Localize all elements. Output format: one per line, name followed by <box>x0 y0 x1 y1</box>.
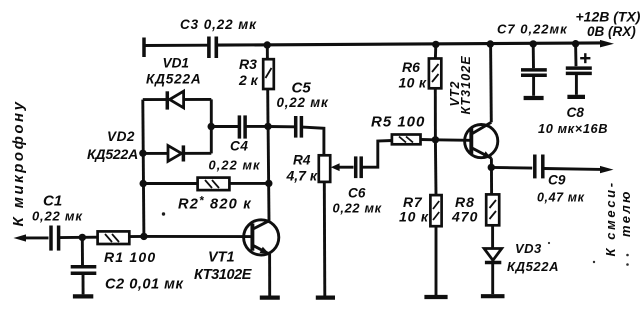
node: rail/C8 junction <box>572 40 579 47</box>
resistor R1 <box>98 231 130 244</box>
input arrow to microphone <box>14 234 27 241</box>
label R8 <box>455 194 475 210</box>
label C4 <box>230 139 248 154</box>
wire: rail to R3 <box>266 45 269 59</box>
label R3 value <box>238 72 259 88</box>
wire: R4 bottom to ground <box>323 182 326 296</box>
resistor R8 <box>486 194 499 225</box>
capacitor C2 <box>71 267 97 273</box>
svg-text:0В (RX): 0В (RX) <box>587 24 636 39</box>
svg-text:10 к: 10 к <box>399 209 429 225</box>
wire: diode pair right vertical <box>210 99 213 153</box>
capacitor C9 <box>535 155 543 179</box>
transistor VT2 <box>465 122 498 158</box>
label VT1 <box>208 250 235 266</box>
svg-text:0,22 мк: 0,22 мк <box>209 158 261 173</box>
svg-text:4,7 к: 4,7 к <box>286 168 318 184</box>
label to mixer line2 <box>618 189 633 237</box>
wire: VD2 row <box>143 152 211 155</box>
wire: C4 to collector node <box>246 125 267 128</box>
svg-text:К микрофону: К микрофону <box>10 100 27 227</box>
wire: VT2 emitter down <box>490 158 493 194</box>
label +12V TX <box>576 9 641 25</box>
svg-text:VD2: VD2 <box>107 129 135 144</box>
svg-text:2 к: 2 к <box>238 72 259 88</box>
potentiometer R4 <box>319 155 340 182</box>
svg-text:10 мк×16В: 10 мк×16В <box>538 121 608 136</box>
wire: R6 to base node <box>434 88 437 140</box>
resistor R7 <box>430 195 441 226</box>
ground (C2) <box>73 294 93 298</box>
diode VD1 <box>167 91 183 109</box>
svg-text:R6: R6 <box>402 59 420 75</box>
node: rail/R3 junction <box>264 41 271 48</box>
label C6 value <box>333 201 382 216</box>
svg-text:0,22 мк: 0,22 мк <box>32 209 83 224</box>
wire: C7 to ground <box>532 75 535 96</box>
svg-text:R2* 820 к: R2* 820 к <box>178 196 252 213</box>
wire: C2 to ground <box>82 273 85 294</box>
wire: collector vertical VT1 <box>267 126 271 220</box>
svg-text:VD1: VD1 <box>163 56 189 71</box>
label VD2 <box>107 129 135 144</box>
label VT2 type <box>459 55 473 114</box>
label R1 value <box>104 249 156 265</box>
wire: R7 to ground <box>435 226 438 295</box>
node: collector VT1 junction <box>264 123 271 130</box>
wire: R5 to base node VT2 <box>421 138 436 141</box>
svg-text:С9: С9 <box>548 173 566 188</box>
node: rail/VT2 collector junction <box>487 40 494 47</box>
node: rail/C7 junction <box>530 40 537 47</box>
polarity plus C8 <box>580 53 590 63</box>
wire: base node to R7 <box>434 140 438 195</box>
label to microphone <box>10 100 27 227</box>
wire: base node to VT1 <box>144 235 251 238</box>
node: rail/R6 junction <box>432 41 439 48</box>
svg-text:+12В (TX): +12В (TX) <box>576 9 641 25</box>
svg-text:470: 470 <box>451 209 478 225</box>
svg-text:КД522А: КД522А <box>87 146 138 162</box>
output arrow to mixer <box>600 166 614 173</box>
label C8 value <box>538 121 608 136</box>
wire: VT1 emitter to ground <box>268 254 271 296</box>
label 0V RX <box>587 24 636 39</box>
wire: C2 branch vertical <box>81 237 84 265</box>
ground (R7) <box>424 295 447 299</box>
label R7 value <box>399 209 429 225</box>
svg-text:R1 100: R1 100 <box>104 249 156 265</box>
svg-text:С4: С4 <box>230 139 248 154</box>
capacitor C1 <box>51 226 59 251</box>
wire: R3 to collector node <box>266 89 269 126</box>
stray scan specks right margin <box>548 242 629 266</box>
label C9 value <box>537 191 585 205</box>
wire: VT2 collector to rail <box>489 44 493 122</box>
resistor R2 <box>198 178 230 191</box>
svg-text:0,22 мк: 0,22 мк <box>277 95 329 110</box>
label VD2 type <box>87 146 138 162</box>
label R5 value <box>371 114 425 131</box>
label to mixer line1 <box>603 180 618 256</box>
wire: C6 up to R5 <box>362 141 392 168</box>
wire: R4 wiper to C6 <box>339 166 354 169</box>
label R8 value <box>451 209 478 225</box>
label VD3 type <box>507 259 559 274</box>
label R6 <box>402 59 420 75</box>
label C9 <box>548 173 566 188</box>
svg-text:КД522А: КД522А <box>146 72 201 87</box>
wire: VD1 row <box>143 98 212 101</box>
node: R2 right junction <box>265 180 272 187</box>
label C3 value <box>180 17 257 32</box>
node: VD2 left junction <box>139 150 146 157</box>
label C5 value <box>277 95 329 110</box>
svg-text:С5: С5 <box>292 80 312 97</box>
wire: emitter to C9 <box>491 166 532 170</box>
svg-text:С3 0,22 мк: С3 0,22 мк <box>180 17 257 32</box>
capacitor C3 <box>209 37 216 59</box>
svg-text:телю: телю <box>618 189 633 237</box>
wire: tap to C4 <box>211 125 238 128</box>
wire: rail to R6 <box>434 44 437 58</box>
wire: left vertical to R2 <box>143 182 197 185</box>
svg-text:С8: С8 <box>567 105 585 120</box>
label VD3 <box>515 241 542 256</box>
wire: R2 to collector vertical <box>229 182 268 185</box>
svg-text:0,47 мк: 0,47 мк <box>537 191 585 205</box>
svg-text:R3: R3 <box>239 56 257 72</box>
wire: R8 to VD3 <box>491 225 494 248</box>
label C5 <box>292 80 312 97</box>
wire: C9 to output <box>544 167 601 171</box>
wire: C5 to R4 top <box>303 127 324 155</box>
label C4 value <box>209 158 261 173</box>
label VD1 type <box>146 72 201 87</box>
wire: rail to C7 <box>532 44 535 68</box>
label VD1 <box>163 56 189 71</box>
wire: node to C5 <box>268 125 294 128</box>
svg-text:VT1: VT1 <box>208 250 235 266</box>
capacitor C7 <box>521 70 547 75</box>
svg-text:VD3: VD3 <box>515 241 542 256</box>
capacitor C4 <box>239 115 245 138</box>
diode VD3 <box>484 249 502 263</box>
svg-text:R4: R4 <box>293 153 311 168</box>
label C8 <box>567 105 585 120</box>
svg-text:С1: С1 <box>43 193 62 210</box>
wire: R1 to base node <box>129 235 144 238</box>
label VT2 <box>448 81 462 107</box>
svg-text:С2 0,01 мк: С2 0,01 мк <box>105 277 183 293</box>
capacitor C5 <box>296 116 302 138</box>
label R4 value <box>286 168 318 184</box>
label R6 value <box>399 75 427 91</box>
capacitor C8 <box>566 68 592 73</box>
resistor R5 <box>392 135 421 145</box>
resistor R3 <box>263 59 274 89</box>
label R7 <box>403 194 423 210</box>
wire: +12V power rail left segment <box>144 44 208 47</box>
svg-text:R5 100: R5 100 <box>371 114 425 131</box>
svg-text:10 к: 10 к <box>399 75 427 91</box>
transistor VT1 <box>244 220 279 255</box>
node: C2 junction <box>79 234 86 241</box>
label C1 value <box>32 209 83 224</box>
ground (VT1 emitter) <box>260 296 280 300</box>
node: base VT2 junction <box>432 136 439 143</box>
svg-text:С6: С6 <box>348 186 366 201</box>
label R4 <box>293 153 311 168</box>
node: emitter junction <box>488 164 495 171</box>
svg-text:0,22 мк: 0,22 мк <box>333 201 382 216</box>
svg-text:КТ3102Е: КТ3102Е <box>194 267 253 283</box>
ground (C7) <box>524 96 544 100</box>
label VT1 type <box>194 267 253 283</box>
wire: VD3 to ground <box>491 263 494 295</box>
wire: rail to C8 <box>574 44 577 66</box>
label C6 <box>348 186 366 201</box>
label R2 value <box>178 196 252 213</box>
ground (R4) <box>316 296 335 300</box>
svg-text:К смеси-: К смеси- <box>603 180 618 256</box>
diode VD2 <box>168 145 183 161</box>
svg-text:С7 0,22мк: С7 0,22мк <box>497 22 568 37</box>
arrow: rail right end <box>600 40 614 48</box>
label C7 value <box>497 22 568 37</box>
wire: diode pair left vertical <box>143 100 144 237</box>
ground (C8) <box>567 95 585 99</box>
label C1 <box>43 193 62 210</box>
capacitor C6 <box>356 156 362 178</box>
wire: C1 to R1 <box>60 236 98 239</box>
ground (VD3) <box>481 294 505 298</box>
node: R2 left junction <box>140 180 147 187</box>
svg-text:КТ3102Е: КТ3102Е <box>459 55 473 114</box>
wire: base node to VT2 base <box>435 138 470 141</box>
label C2 value <box>105 277 183 293</box>
input terminal bar (rail left end) <box>142 38 146 58</box>
resistor R6 <box>429 59 441 89</box>
stray scan speck below R2 label <box>162 212 165 215</box>
label R3 <box>239 56 257 72</box>
node: base VT1 junction <box>140 233 147 240</box>
wire: +12V power rail main segment <box>218 43 603 45</box>
wire: input to C1 <box>20 236 49 239</box>
wire: C8 to ground <box>575 73 578 94</box>
svg-text:КД522А: КД522А <box>507 259 559 274</box>
node: diode mid tap <box>208 123 215 130</box>
